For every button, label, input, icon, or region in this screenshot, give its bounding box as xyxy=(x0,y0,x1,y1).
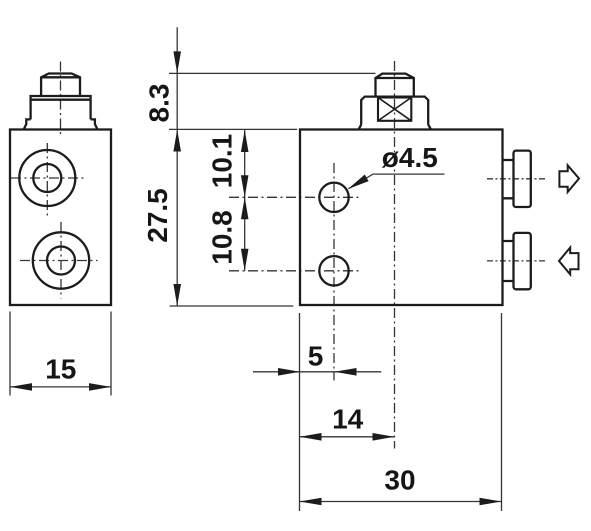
center line hole2 horizontal xyxy=(229,270,362,272)
svg-text:ø4.5: ø4.5 xyxy=(382,142,438,173)
lower port outer circle xyxy=(33,232,89,288)
left cap washer and body xyxy=(31,96,91,119)
center line upper port horizontal xyxy=(11,177,85,179)
bottom dims extension left xyxy=(299,313,301,511)
svg-text:15: 15 xyxy=(45,354,76,385)
dim 15 extension right xyxy=(110,312,112,396)
extension nut top xyxy=(169,72,376,74)
arrow 10.8 bottom (down) xyxy=(241,249,249,271)
upper port inner circle xyxy=(33,164,61,192)
dim 15 line xyxy=(10,386,111,388)
fitting 2 neck xyxy=(503,241,514,281)
center line left cap vertical xyxy=(60,62,62,137)
arrow 30 right xyxy=(480,498,502,506)
svg-text:14: 14 xyxy=(332,403,364,434)
right cap cartridge box xyxy=(378,98,411,121)
flow arrow in (left-pointing) xyxy=(559,248,579,275)
lower port inner circle xyxy=(47,247,75,275)
center line lower port horizontal xyxy=(20,260,98,262)
arrow 8.3 top (down) xyxy=(173,51,181,73)
arrow 14 right xyxy=(373,433,395,441)
arrow 14 left xyxy=(300,433,322,441)
fitting 2 cap xyxy=(514,233,531,289)
svg-text:8.3: 8.3 xyxy=(144,84,175,123)
cartridge X diagonal 1 xyxy=(378,98,411,121)
arrow 10.1 top (up) xyxy=(241,130,249,152)
arrow 5 right (left-pointing) xyxy=(335,368,357,376)
fitting 1 cap xyxy=(514,151,531,207)
extension block top left xyxy=(169,128,297,130)
left cap nut xyxy=(41,74,80,96)
svg-text:10.1: 10.1 xyxy=(207,134,238,189)
arrow 15 left xyxy=(10,383,32,391)
arrow 30 left xyxy=(300,498,322,506)
svg-text:30: 30 xyxy=(384,464,415,495)
hole 1 circle xyxy=(319,183,348,212)
fitting 1 neck xyxy=(503,160,514,198)
dim 10.1/10.8 line xyxy=(244,130,246,271)
arrow 27.5 bottom (down) xyxy=(173,284,181,306)
right view body xyxy=(300,130,503,306)
cartridge X diagonal 2 xyxy=(378,98,411,121)
center line upper port vertical xyxy=(46,143,48,217)
dim top vertical line (8.3/27.5) xyxy=(176,27,178,306)
dim 30 line xyxy=(300,501,502,503)
dim 5 line xyxy=(253,371,381,373)
leader line dia 4.5 xyxy=(349,174,445,189)
right cap nut xyxy=(376,74,414,97)
arrow leader dia4.5 xyxy=(348,175,369,190)
arrow 10.8 top (up) xyxy=(241,197,249,219)
center line right cap vertical xyxy=(394,61,396,449)
arrow 5 left (right-pointing) xyxy=(278,368,300,376)
arrow 10.1 bottom (down) xyxy=(241,175,249,197)
extension block bottom left xyxy=(170,305,294,307)
left cap foot xyxy=(24,119,98,129)
center line holes vertical xyxy=(333,163,335,381)
center line hole1 horizontal xyxy=(229,196,362,198)
bottom dims extension right xyxy=(501,313,503,511)
right cap flange xyxy=(359,97,431,130)
hole 2 circle xyxy=(319,256,348,285)
dim 15 extension left xyxy=(9,312,11,396)
center line fitting2 horizontal xyxy=(487,260,545,262)
svg-text:27.5: 27.5 xyxy=(142,188,173,243)
svg-text:5: 5 xyxy=(308,341,324,372)
left view body xyxy=(10,130,111,306)
upper port outer circle xyxy=(19,150,75,206)
center line fitting1 horizontal xyxy=(487,178,545,180)
center line lower port vertical xyxy=(60,222,62,299)
flow arrow out (right-pointing) xyxy=(559,165,579,192)
arrow 15 right xyxy=(89,383,111,391)
dim 14 line xyxy=(300,436,395,438)
svg-text:10.8: 10.8 xyxy=(207,210,238,265)
arrow 27.5 top (up) xyxy=(173,130,181,152)
